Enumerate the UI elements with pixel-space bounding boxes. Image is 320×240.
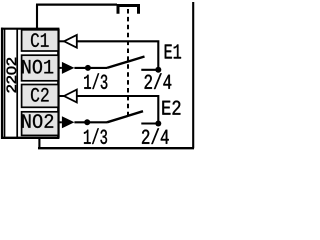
label 2/4 (contact 1) bbox=[145, 73, 172, 89]
wire C1 row to fixed contact E1 bbox=[77, 41, 159, 70]
terminal cell NO1 bbox=[22, 55, 59, 81]
plunger arrow C1 (open triangle) bbox=[64, 35, 77, 48]
junction dot E2 fixed contact bbox=[155, 121, 161, 127]
wire C2 to plunger arrow bbox=[58, 95, 64, 97]
wire NO2 to pivot bbox=[74, 121, 107, 123]
terminal cell C1 bbox=[22, 30, 59, 51]
contact block bottom edge / frame boundary segment bbox=[1, 137, 59, 139]
label 1/3 (contact 1) bbox=[84, 73, 107, 89]
plunger arrow C2 (open triangle) bbox=[64, 90, 77, 103]
contact block right edge bbox=[57, 29, 60, 138]
frame left border bbox=[1, 28, 3, 139]
mechanical linkage dashed line bbox=[127, 9, 129, 118]
contact block left edge bbox=[4, 29, 6, 138]
wire top horizontal to actuator head bbox=[36, 3, 117, 5]
label 1/3 (contact 2) bbox=[84, 128, 107, 144]
terminal cell NO2 bbox=[22, 112, 59, 136]
frame right border bbox=[192, 2, 194, 148]
contact block separator bbox=[16, 29, 18, 138]
moving contact blade 1 bbox=[107, 57, 145, 68]
fixed contact E1 bbox=[141, 69, 158, 71]
moving contact blade 2 bbox=[107, 111, 143, 122]
wire C1 to plunger arrow bbox=[58, 40, 64, 42]
contact block top edge bbox=[1, 28, 59, 30]
frame bottom-left step wire bbox=[38, 138, 40, 148]
label 2202 (rotated) bbox=[7, 58, 17, 93]
junction dot E1 fixed contact bbox=[155, 67, 161, 73]
fixed contact E2 bbox=[141, 122, 158, 124]
label E2 bbox=[162, 101, 180, 115]
junction dot NO2 bbox=[84, 119, 90, 125]
junction dot NO1 bbox=[85, 65, 91, 71]
label E1 bbox=[165, 45, 181, 59]
wire C2 row to fixed contact E2 bbox=[77, 96, 159, 124]
actuator head bracket bbox=[118, 6, 139, 14]
frame bottom border bbox=[38, 147, 194, 149]
label 2/4 (contact 2) bbox=[142, 128, 169, 144]
plunger arrow NO1 (filled triangle) bbox=[58, 62, 74, 74]
wire NO1 to pivot bbox=[74, 67, 107, 69]
plunger arrow NO2 (filled triangle) bbox=[58, 116, 74, 128]
terminal cell C2 bbox=[22, 85, 59, 108]
wire riser from contact block top bbox=[36, 5, 38, 29]
